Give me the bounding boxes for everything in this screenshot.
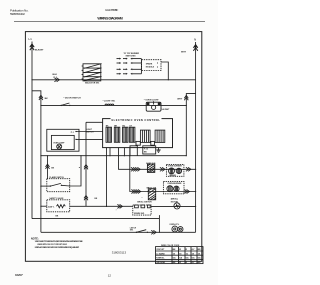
svg-text:(BROIL): (BROIL) (171, 199, 179, 201)
wire bus (middle horizontal) (41, 155, 186, 157)
svg-text:P-1: P-1 (71, 132, 74, 134)
wire spark module to rail A (161, 62, 168, 80)
wire lock box to motor (151, 205, 196, 207)
svg-text:SPARK: SPARK (146, 63, 153, 66)
relay K2 (114, 126, 120, 143)
N supply arrow (193, 45, 197, 51)
svg-text:BK: BK (45, 98, 49, 100)
svg-text:2. REPLACE WIRE ONLY WITH 105°: 2. REPLACE WIRE ONLY WITH 105°C RATED WI… (35, 246, 80, 249)
wire neutral drop (186, 94, 195, 156)
top burner switch arrows bank (116, 53, 141, 75)
broil row connectors (131, 190, 136, 194)
wire V2 (flame switch return) (70, 156, 81, 186)
svg-text:SWITCH: SWITCH (86, 131, 94, 133)
selector switch SW1 (82, 64, 102, 85)
wire bake row drop (119, 148, 196, 170)
wire door/light branch (32, 91, 41, 233)
svg-text:SWITCHES: SWITCHES (126, 55, 137, 57)
broil ignitor (137, 187, 157, 203)
svg-text:SELECTOR SW.: SELECTOR SW. (85, 83, 100, 85)
svg-text:BK: BK (144, 152, 147, 154)
spark module U1 (dashed box) (142, 60, 162, 71)
svg-text:318053113: 318053113 (112, 251, 127, 255)
svg-text:SW.: SW. (130, 230, 134, 232)
svg-text:GAS V.: GAS V. (48, 205, 55, 208)
EOC stubs to bus (123, 148, 125, 156)
bake burner (dashed box with orifices) (166, 164, 184, 176)
svg-text:P-12: P-12 (144, 148, 148, 150)
latch motor M1 (171, 201, 180, 209)
broil burner (dashed box with orifices) (163, 181, 184, 200)
wire EOC top-left stub (86, 121, 103, 123)
electronic oven control EOC (103, 117, 173, 148)
internal terminal block (136, 141, 140, 145)
wire valve output line (70, 205, 133, 207)
L1 supply arrow (30, 44, 34, 50)
svg-text:04/07: 04/07 (15, 273, 23, 277)
door switch S1 (61, 97, 82, 106)
wire V3 (EOC drop) (106, 148, 108, 207)
wire stub to flame switch (41, 185, 51, 187)
svg-text:L1 BAKE: L1 BAKE (156, 252, 165, 255)
svg-text:L1: L1 (28, 37, 32, 41)
svg-text:W: W (179, 262, 181, 264)
svg-text:BLK: BLK (53, 74, 58, 76)
wire oven light circuit (41, 104, 186, 106)
svg-text:*: * (116, 210, 117, 212)
svg-text:P-40 WHT: P-40 WHT (161, 108, 171, 111)
relay K4 (129, 126, 135, 143)
relay K6 (155, 130, 165, 142)
notes block (31, 237, 83, 248)
connector block P1 below EOC (130, 146, 137, 156)
svg-text:* DOOR SWITCH: * DOOR SWITCH (64, 97, 82, 99)
oven light assembly (144, 99, 170, 111)
svg-text:MODULE: MODULE (146, 66, 155, 68)
svg-text:BK: BK (95, 198, 98, 200)
svg-text:5995354402: 5995354402 (10, 12, 25, 16)
svg-text:GROUND: GROUND (156, 262, 165, 264)
svg-text:OVEN BURNER: OVEN BURNER (168, 166, 183, 168)
svg-text:(BAKE): (BAKE) (169, 174, 176, 177)
svg-text:WHT: WHT (177, 99, 183, 101)
wire rail C (bottom horizontal from L1) (32, 215, 159, 232)
wire rail B (bottom) (41, 231, 196, 233)
wire lamp to EOC upper (76, 131, 103, 133)
svg-text:BROIL IGNITOR: BROIL IGNITOR (137, 202, 152, 204)
svg-text:W: W (179, 249, 181, 251)
svg-text:WHT: WHT (181, 52, 187, 54)
wire N vertical (195, 42, 197, 232)
svg-text:ELECTRONIC OVEN CONTROL: ELECTRONIC OVEN CONTROL (112, 118, 161, 122)
svg-text:WIRING DIAGRAM: WIRING DIAGRAM (97, 16, 122, 20)
svg-text:1. DISCONNECT POWER SUPPLY, BE: 1. DISCONNECT POWER SUPPLY, BEFORE SERVI… (35, 241, 84, 243)
connector block P2 below EOC (143, 146, 156, 154)
wire thermostat drop (47, 156, 49, 179)
light switch coil (103, 101, 116, 106)
relay K5 (140, 130, 150, 142)
svg-text:SPARK SW.: SPARK SW. (134, 212, 145, 215)
svg-text:N BROIL: N BROIL (156, 258, 165, 260)
bake ignitor (146, 162, 156, 173)
svg-text:BK: BK (51, 167, 54, 169)
connector to neutral (186, 105, 187, 106)
svg-text:*: * (142, 198, 143, 200)
flame switch box (47, 176, 70, 192)
svg-text:CIRCUIT: CIRCUIT (156, 249, 165, 251)
wire stub to safety valve (41, 205, 47, 207)
oven lamp box (47, 129, 79, 151)
svg-text:* OVEN LIGHT: * OVEN LIGHT (144, 99, 159, 101)
connector on rail B (151, 230, 156, 234)
svg-text:OVEN BURNER: OVEN BURNER (167, 183, 182, 185)
svg-text:* LIGHT SW.: * LIGHT SW. (103, 101, 116, 103)
connector on branch (39, 95, 43, 100)
svg-text:GGF355BF: GGF355BF (105, 8, 118, 12)
wire lamp to EOC lower (76, 138, 103, 140)
door lock switch box (133, 205, 151, 215)
connector on rail A (54, 78, 59, 82)
header rule (14, 20, 205, 22)
svg-text:BK: BK (56, 216, 59, 218)
wire rail A (top horizontal) (32, 79, 196, 81)
ground (chassis) (156, 148, 160, 153)
oven lights L2 L3 (169, 224, 183, 232)
svg-text:USED WITH 120 VOLT CIRCUIT ONL: USED WITH 120 VOLT CIRCUIT ONLY. (37, 244, 68, 246)
svg-text:BLK/WT: BLK/WT (35, 49, 44, 51)
legend table (156, 245, 204, 264)
svg-text:NOTE:: NOTE: (31, 237, 39, 240)
latch switch S3 (136, 232, 137, 233)
wire V1 (x=86 vertical) (85, 122, 87, 206)
wire broil row drop (130, 148, 196, 192)
border frame (25, 32, 201, 262)
relay K3 (122, 126, 128, 143)
safety valve box (47, 197, 70, 212)
bake row connectors (131, 167, 136, 171)
relay K1 (106, 126, 112, 143)
wire L1 vertical (31, 42, 33, 219)
svg-text:12: 12 (108, 273, 112, 277)
svg-text:N: N (194, 38, 196, 42)
